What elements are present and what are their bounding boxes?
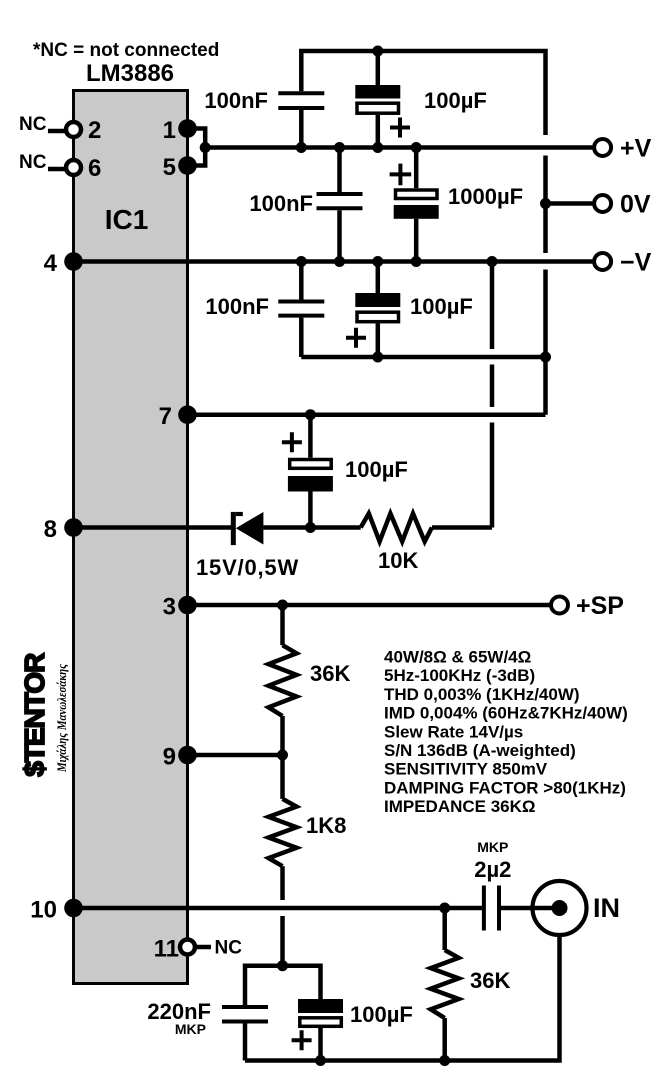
svg-text:IMD 0,004% (60Hz&7KHz/40W): IMD 0,004% (60Hz&7KHz/40W) (384, 704, 628, 723)
svg-text:1: 1 (163, 117, 176, 144)
pin 6 NC (19, 152, 101, 182)
resistor R1 10K (361, 514, 492, 574)
wire bottom rail (245, 935, 560, 1061)
pin 2 NC (19, 114, 101, 144)
node diode-cap junction (305, 522, 316, 533)
node bracket junction (200, 142, 211, 153)
svg-text:5: 5 (163, 154, 176, 181)
terminal -V (594, 253, 611, 270)
resistor R4 36K (431, 908, 511, 1061)
svg-text:11: 11 (154, 936, 179, 963)
wire pin 3 line (+SP) (188, 603, 552, 608)
capacitor C6 100uF electrolytic (346, 262, 473, 358)
svg-text:100µF: 100µF (424, 88, 487, 113)
svg-text:3: 3 (163, 594, 176, 621)
connector IN (RCA) (533, 881, 621, 935)
svg-text:6: 6 (88, 155, 101, 182)
diode D1 zener 15V/0,5W (196, 512, 361, 580)
svg-text:THD 0,003% (1KHz/40W): THD 0,003% (1KHz/40W) (384, 685, 580, 704)
node bypass rail junctions (372, 352, 383, 363)
wire +V rail (205, 145, 594, 150)
svg-text:Slew Rate 14V/µs: Slew Rate 14V/µs (384, 722, 523, 741)
node pin7 junction (305, 409, 316, 420)
pin 11 NC (154, 936, 243, 963)
wire bypass bottom rail (301, 355, 545, 360)
svg-text:1K8: 1K8 (306, 813, 346, 838)
wire pin 8 line (74, 525, 232, 530)
node top-rail junction (372, 46, 383, 57)
svg-text:2: 2 (88, 117, 101, 144)
wire 0V stub (546, 201, 595, 206)
node -V junctions (296, 256, 307, 267)
svg-text:NC: NC (215, 938, 243, 959)
capacitor C7 100uF electrolytic (282, 415, 408, 528)
capacitor C10 2u2 MKP (474, 839, 533, 931)
wire pins 1-5 bracket (188, 129, 206, 166)
node +V junctions (296, 142, 307, 153)
resistor R3 1K8 (269, 755, 347, 966)
capacitor C4 1000uF electrolytic (390, 148, 523, 262)
svg-text:+SP: +SP (576, 592, 624, 620)
svg-text:8: 8 (44, 516, 57, 543)
resistor R2 36K (269, 605, 351, 755)
capacitor C1 100nF (204, 88, 324, 148)
terminal +V (594, 139, 611, 156)
svg-text:5Hz-100KHz (-3dB): 5Hz-100KHz (-3dB) (384, 666, 535, 685)
svg-text:4: 4 (44, 250, 58, 277)
capacitor C3 100nF (249, 148, 362, 262)
svg-text:10K: 10K (378, 548, 418, 573)
svg-text:100nF: 100nF (249, 191, 313, 216)
wire pin 7 line (188, 412, 546, 417)
node bracket junction (277, 960, 288, 971)
svg-text:36K: 36K (470, 968, 510, 993)
pin 7 (178, 405, 197, 424)
pin 3 (178, 596, 197, 615)
terminal +SP (551, 597, 568, 614)
svg-text:36K: 36K (310, 661, 350, 686)
node bottom rail junctions (315, 1055, 326, 1066)
pin 8 (64, 518, 83, 537)
node pin3 junction (277, 600, 288, 611)
pin 9 (178, 746, 197, 765)
svg-text:2µ2: 2µ2 (474, 857, 511, 882)
terminal 0V (594, 195, 611, 212)
wire right vertical rail (with hops over +V and -V) (543, 156, 548, 415)
svg-text:S/N 136dB (A-weighted): S/N 136dB (A-weighted) (384, 741, 576, 760)
pin 5 (178, 156, 197, 175)
capacitor C8 220nF MKP (147, 999, 268, 1061)
svg-text:LM3886: LM3886 (86, 60, 174, 87)
node pin10 junction (439, 903, 450, 914)
svg-text:100µF: 100µF (410, 294, 473, 319)
svg-text:MKP: MKP (175, 1021, 206, 1037)
svg-text:NC: NC (19, 152, 47, 173)
svg-text:10: 10 (30, 897, 57, 924)
wire -V rail from pin 4 (74, 259, 595, 264)
capacitor C5 100nF (205, 262, 324, 358)
svg-text:SENSITIVITY 850mV: SENSITIVITY 850mV (384, 760, 548, 779)
wire pin 9 line (188, 753, 283, 758)
svg-text:*NC = not connected: *NC = not connected (33, 40, 219, 61)
svg-text:MKP: MKP (477, 839, 508, 855)
wire top rail (301, 51, 545, 135)
svg-text:0V: 0V (620, 191, 651, 219)
svg-text:100nF: 100nF (205, 294, 269, 319)
specs text block (384, 648, 628, 817)
logo STENTOR (19, 653, 69, 777)
node pin9 junction (277, 750, 288, 761)
svg-text:9: 9 (163, 744, 176, 771)
node 0V junction (540, 198, 551, 209)
svg-text:NC: NC (19, 114, 47, 135)
svg-text:Μιχάλης Μανωλεσάκης: Μιχάλης Μανωλεσάκης (55, 664, 69, 773)
svg-text:IN: IN (593, 893, 620, 923)
pin 4 (64, 252, 83, 271)
svg-text:1000µF: 1000µF (448, 184, 523, 209)
svg-text:IC1: IC1 (105, 204, 149, 235)
svg-text:40W/8Ω & 65W/4Ω: 40W/8Ω & 65W/4Ω (384, 648, 531, 667)
svg-text:+V: +V (620, 135, 652, 163)
capacitor C2 100uF electrolytic (355, 51, 487, 148)
svg-text:15V/0,5W: 15V/0,5W (196, 555, 299, 580)
wire bottom bracket (245, 966, 321, 1005)
svg-text:DAMPING FACTOR >80(1KHz): DAMPING FACTOR >80(1KHz) (384, 778, 626, 797)
capacitor C9 100uF electrolytic (292, 999, 413, 1061)
svg-text:IMPEDANCE 36KΩ: IMPEDANCE 36KΩ (384, 797, 536, 816)
op-amp IC1 body (74, 91, 188, 984)
wire feedback vertical (with hops) (490, 262, 495, 528)
svg-text:100µF: 100µF (345, 457, 408, 482)
svg-text:7: 7 (159, 403, 172, 430)
svg-text:100µF: 100µF (350, 1002, 413, 1027)
svg-text:$TENTOR: $TENTOR (19, 653, 50, 777)
pin 1 (178, 119, 197, 138)
wire pin 10 line (74, 906, 482, 911)
svg-text:−V: −V (620, 249, 652, 277)
svg-text:100nF: 100nF (204, 88, 268, 113)
pin 10 (64, 899, 83, 918)
